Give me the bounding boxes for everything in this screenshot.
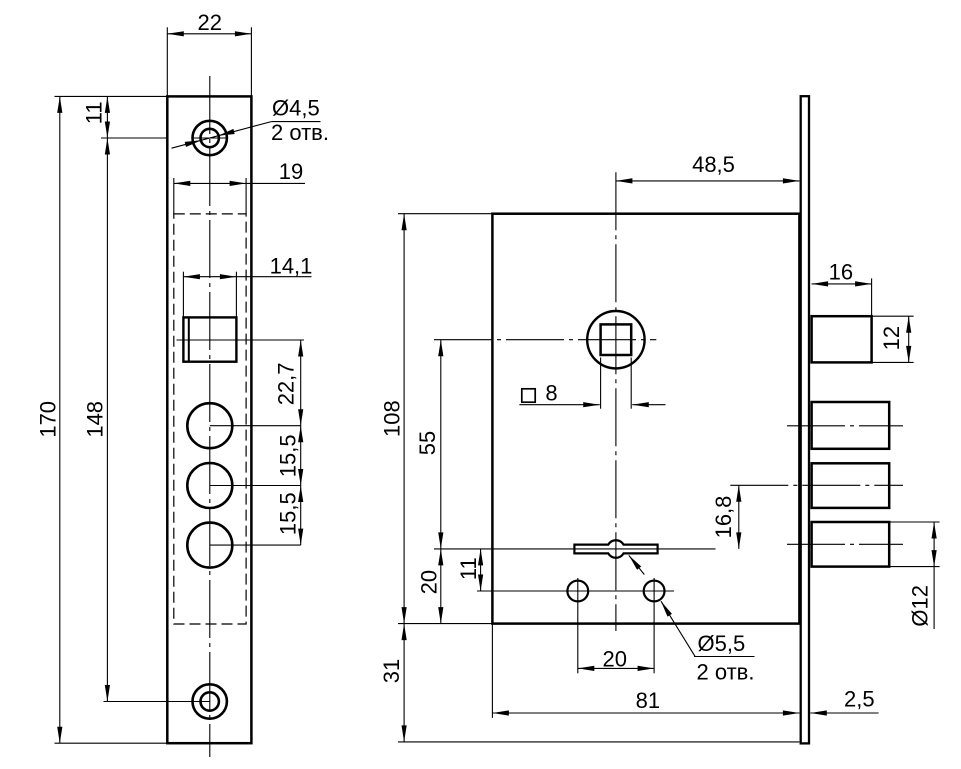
svg-text:48,5: 48,5 [692,152,735,177]
svg-text:22: 22 [198,10,222,35]
svg-text:16,8: 16,8 [711,496,736,539]
svg-text:11: 11 [456,557,481,580]
svg-text:Ø5,5: Ø5,5 [698,631,746,656]
svg-text:55: 55 [415,431,440,455]
svg-text:20: 20 [417,570,442,594]
svg-text:14,1: 14,1 [270,253,313,278]
svg-text:81: 81 [636,688,660,713]
svg-text:2 отв.: 2 отв. [697,660,755,685]
svg-text:2 отв.: 2 отв. [271,120,329,145]
svg-text:8: 8 [545,381,557,406]
svg-text:31: 31 [379,659,404,683]
svg-text:Ø4,5: Ø4,5 [272,95,320,120]
svg-text:19: 19 [279,159,303,184]
svg-text:12: 12 [879,326,904,350]
svg-text:Ø12: Ø12 [908,585,933,627]
svg-text:16: 16 [829,259,853,284]
svg-text:170: 170 [36,401,61,438]
svg-text:20: 20 [603,646,627,671]
svg-text:22,7: 22,7 [273,362,298,405]
svg-text:11: 11 [82,101,107,124]
svg-text:148: 148 [83,401,108,438]
svg-text:15,5: 15,5 [275,434,300,477]
svg-text:2,5: 2,5 [844,686,875,711]
svg-text:108: 108 [380,400,405,437]
svg-text:15,5: 15,5 [275,492,300,535]
